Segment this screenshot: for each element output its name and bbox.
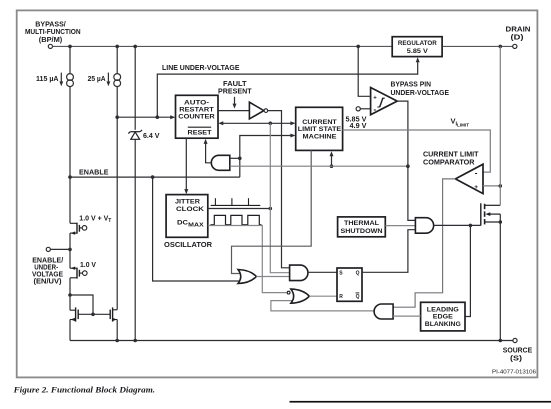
wire ENABLE rail xyxy=(70,176,240,178)
wire enable to SM xyxy=(240,136,294,178)
G_MIDDLE xyxy=(115,57,419,311)
svg-text:(BP/M): (BP/M) xyxy=(39,35,63,44)
svg-text:LINE UNDER-VOLTAGE: LINE UNDER-VOLTAGE xyxy=(162,63,240,72)
AND gate U9 gate driver xyxy=(415,218,433,234)
svg-text:MAX: MAX xyxy=(188,223,204,229)
wire LEB output to AND xyxy=(393,315,421,317)
svg-text:UNDER-VOLTAGE: UNDER-VOLTAGE xyxy=(391,88,450,97)
wire BP to auto-restart counter xyxy=(117,116,173,118)
flip-flop U6 SR latch xyxy=(337,268,362,301)
NOR gate U5 xyxy=(291,289,309,303)
block CURRENT LIMIT STATE MACHINE xyxy=(296,107,343,150)
wire gate drive to LEB xyxy=(465,225,470,316)
wire SM bottom arrow from y166 xyxy=(331,155,333,166)
wire line under-voltage xyxy=(157,60,417,118)
node reset AND input junction xyxy=(238,157,242,161)
svg-text:RESET: RESET xyxy=(188,130,212,137)
pin DRAIN terminal xyxy=(513,44,517,48)
svg-text:MACHINE: MACHINE xyxy=(303,133,338,140)
wire SM bottom to OR1 feed xyxy=(232,150,312,273)
block THERMAL SHUTDOWN xyxy=(338,217,386,237)
svg-text:Q: Q xyxy=(356,271,360,277)
svg-text:PI-4077-013106: PI-4077-013106 xyxy=(492,370,536,376)
svg-text:R: R xyxy=(339,294,343,300)
node ARC input junctions xyxy=(115,115,119,119)
wire top rail left xyxy=(53,45,393,47)
node top rail junctions xyxy=(68,45,72,49)
wire comparator output to LEB AND xyxy=(393,179,455,307)
AND gate U10 blanking (left facing) xyxy=(374,304,393,319)
G_BOTTOM xyxy=(70,338,536,375)
svg-text:ENABLE: ENABLE xyxy=(79,167,109,176)
arrow Q2 drain stub xyxy=(71,267,76,270)
wire reset AND output to RESET arrow xyxy=(206,143,212,163)
AND gate U2 reset (left facing) xyxy=(211,155,229,170)
svg-text:REGULATOR: REGULATOR xyxy=(398,40,437,47)
wire ARC to oscillator xyxy=(185,138,187,191)
svg-text:THERMAL: THERMAL xyxy=(344,220,379,227)
svg-text:Q: Q xyxy=(356,294,360,300)
wire mirror sources to rail xyxy=(69,320,71,341)
wire top rail right xyxy=(442,45,512,47)
current source I1 115uA xyxy=(61,46,73,177)
label ENABLE/UNDER-VOLTAGE (EN/UV) xyxy=(32,255,63,285)
svg-text:COMPARATOR: COMPARATOR xyxy=(423,158,475,167)
G_TOP xyxy=(25,19,531,340)
svg-text:LIMIT STATE: LIMIT STATE xyxy=(298,126,342,133)
hysteresis glyph xyxy=(377,98,385,107)
svg-text:CLOCK: CLOCK xyxy=(176,206,204,213)
wire comparator plus input xyxy=(483,185,500,187)
wire DCmax output to NOR xyxy=(208,226,287,293)
wire 25uA vertical to mirror xyxy=(116,87,118,310)
wire thermal shutdown output xyxy=(385,225,415,227)
pin 5.85/4.9 reference terminal xyxy=(356,107,360,111)
svg-text:DC: DC xyxy=(177,220,188,227)
pin SOURCE terminal xyxy=(513,338,517,342)
OR gate U3 (OR1) xyxy=(238,270,256,284)
node MOSFET source tie xyxy=(499,220,503,224)
wire NOR output to latch R xyxy=(309,295,337,297)
wire NOR lower input xyxy=(271,301,374,311)
transistor Q5 power MOSFET xyxy=(481,203,501,225)
arrow into SM left upper xyxy=(290,121,295,125)
svg-text:SHUTDOWN: SHUTDOWN xyxy=(341,228,383,235)
zener diode 6.4V vertical wire xyxy=(134,46,136,129)
node mirror gate junction xyxy=(91,313,95,317)
wire ARC to inverter xyxy=(218,110,249,112)
arrow I2 down xyxy=(107,81,111,86)
svg-text:RESTART: RESTART xyxy=(179,107,214,114)
wire reset AND lower input y166 xyxy=(230,165,408,167)
clock waveform ticks xyxy=(211,198,261,205)
arrow into ARC right xyxy=(218,121,223,125)
wire latch Q to driver AND xyxy=(362,230,416,273)
op-amp U8 current limit comparator (left facing) xyxy=(455,164,483,193)
svg-text:Figure 2. Functional Block Di: Figure 2. Functional Block Diagram. xyxy=(13,384,156,394)
block OSCILLATOR xyxy=(166,195,208,238)
wire driver output to MOSFET gate xyxy=(434,224,481,226)
block REGULATOR 5.85V xyxy=(392,37,442,57)
wire inverter output down to AND3 xyxy=(268,111,290,268)
pin BP/M terminal xyxy=(48,44,52,48)
node mirror gate tap xyxy=(68,293,72,297)
op-amp U7 bypass pin under-voltage comparator xyxy=(371,88,398,115)
svg-text:(EN/UV): (EN/UV) xyxy=(34,276,63,285)
node enable junctions xyxy=(68,175,72,179)
wire mirror gate line xyxy=(78,313,110,315)
block LEADING EDGE BLANKING xyxy=(421,302,465,331)
G_RIGHT xyxy=(338,46,503,340)
node y166 junction at SM xyxy=(330,164,334,168)
DCmax waveform xyxy=(211,215,262,224)
wire bypass comparator output xyxy=(397,101,415,220)
wire ARC-SM double arrow line xyxy=(221,122,294,124)
G_LEFT xyxy=(32,167,243,340)
AND gate U4 (3-input) xyxy=(290,265,308,281)
node clock junction xyxy=(269,207,273,211)
node EN/UV junction xyxy=(68,248,72,252)
svg-text:+: + xyxy=(373,95,377,101)
current source I2 25uA xyxy=(108,46,120,86)
svg-text:4.9 V: 4.9 V xyxy=(350,123,367,130)
wire RESET overline xyxy=(188,126,211,128)
wire reset AND inputs xyxy=(230,157,240,159)
wire OR1 output xyxy=(256,276,289,278)
transistor Q2 sense FET 1.0V xyxy=(70,268,87,279)
node source rail junctions xyxy=(115,339,119,343)
svg-text:5.85 V: 5.85 V xyxy=(407,48,429,55)
svg-text:25 µA: 25 µA xyxy=(88,76,106,83)
svg-text:115 µA: 115 µA xyxy=(36,76,59,83)
svg-text:EDGE: EDGE xyxy=(433,314,454,321)
wire to current mirror xyxy=(69,278,71,310)
wire source rail xyxy=(70,340,513,342)
wire EN/UV pin stub xyxy=(50,248,70,250)
wire between sense FETs xyxy=(69,233,71,268)
svg-text:-: - xyxy=(475,168,478,178)
svg-text:BLANKING: BLANKING xyxy=(425,321,461,328)
svg-text:JITTER: JITTER xyxy=(175,198,200,205)
wire clock net vertical xyxy=(270,123,290,272)
transistor Q3 mirror left xyxy=(70,307,78,321)
wire enable down to OR1 xyxy=(153,177,243,281)
svg-text:-: - xyxy=(373,104,376,114)
wire CLOCK output xyxy=(208,208,270,210)
node gate drive junction xyxy=(469,224,473,228)
bottom table rule xyxy=(290,401,551,403)
wire pin vertical segment xyxy=(69,177,71,223)
arrow into regulator xyxy=(416,57,420,62)
pin EN/UV terminal xyxy=(46,247,50,251)
transistor Q4 mirror right xyxy=(110,307,117,321)
wire mirror diode connection xyxy=(70,295,93,314)
wire regulator to bypass comparator plus xyxy=(358,46,370,96)
inverter U1 xyxy=(249,102,264,119)
svg-text:CURRENT: CURRENT xyxy=(302,119,337,126)
block AUTO-RESTART COUNTER xyxy=(176,95,219,138)
arrow MOSFET body xyxy=(485,212,490,216)
svg-text:AUTO-: AUTO- xyxy=(184,99,209,106)
arrow fault present down xyxy=(234,97,236,106)
svg-text:PRESENT: PRESENT xyxy=(218,87,252,96)
label BYPASS/MULTI-FUNCTION (BP/M) xyxy=(25,19,81,44)
wire drain vertical xyxy=(499,46,501,205)
svg-text:COUNTER: COUNTER xyxy=(178,114,215,121)
wire Vilimit from SM xyxy=(343,130,491,172)
transistor Q1 sense FET 1.0V+VT xyxy=(70,223,87,234)
svg-text:OSCILLATOR: OSCILLATOR xyxy=(164,240,213,249)
svg-text:(D): (D) xyxy=(511,33,525,42)
node y166 tie xyxy=(406,164,410,168)
svg-text:1.0 V: 1.0 V xyxy=(80,262,96,269)
svg-text:LEADING: LEADING xyxy=(427,306,459,313)
arrow Q3 source xyxy=(71,318,76,321)
arrow into ARC xyxy=(170,115,175,119)
label DRAIN (D) xyxy=(506,25,531,42)
svg-text:(S): (S) xyxy=(510,354,523,363)
arrow into SM left lower xyxy=(290,134,295,138)
svg-text:6.4 V: 6.4 V xyxy=(143,133,160,140)
arrow I1 down xyxy=(59,81,63,86)
arrow Q4 source xyxy=(112,318,117,321)
arrow Q1 source xyxy=(71,231,76,234)
zener diode VR1 6.4 V xyxy=(128,130,142,139)
node on ARC-SM line xyxy=(269,122,273,126)
svg-text:+: + xyxy=(474,184,478,191)
wire AND3 output to latch S xyxy=(308,271,337,273)
